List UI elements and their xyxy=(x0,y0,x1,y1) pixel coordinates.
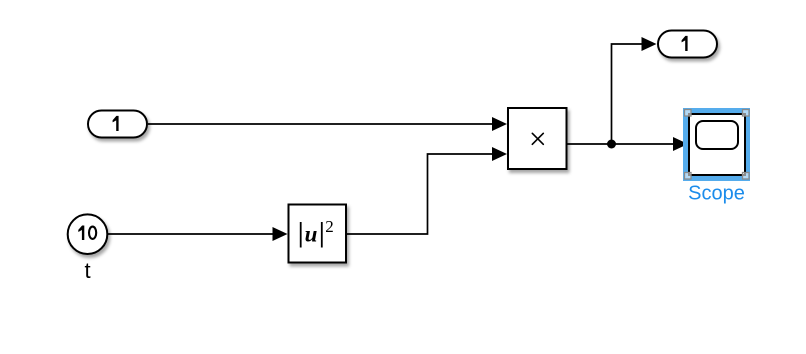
svg-text:Scope: Scope xyxy=(688,183,745,205)
svg-text:2: 2 xyxy=(325,217,334,236)
svg-text:u: u xyxy=(305,222,318,247)
svg-text:t: t xyxy=(84,258,90,283)
